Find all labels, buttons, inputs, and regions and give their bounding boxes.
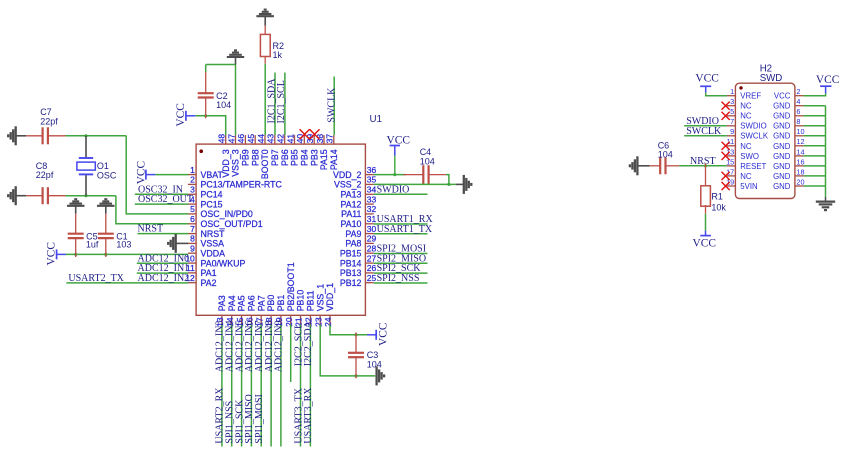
svg-text:20: 20 [796, 177, 804, 186]
ground at VSS_1 [375, 366, 377, 385]
svg-text:PA1: PA1 [201, 268, 217, 278]
svg-text:PA8: PA8 [345, 239, 361, 249]
wire pin30 USART1_TX [374, 233, 428, 235]
svg-text:GND: GND [773, 172, 791, 181]
svg-text:ADC12_IN9: ADC12_IN9 [274, 321, 285, 373]
svg-text:SWDIO: SWDIO [740, 122, 766, 131]
svg-text:PB2/BOOT1: PB2/BOOT1 [286, 262, 296, 311]
wire pin10 ADC12_IN0 [137, 262, 188, 264]
ground above C1 [97, 205, 115, 207]
svg-text:22pf: 22pf [40, 117, 58, 127]
ground at VSS_3 [227, 56, 244, 58]
wire pin28 SPI2_MOSI [374, 253, 428, 255]
power VCC at H2 pin1 [700, 85, 711, 87]
junction R1 on NRST [704, 164, 707, 167]
svg-text:USART1_TX: USART1_TX [377, 224, 433, 235]
svg-text:6: 6 [796, 107, 800, 116]
power VCC at VDDA rail [56, 249, 58, 259]
junction C5 [74, 253, 77, 256]
svg-text:9: 9 [190, 243, 195, 253]
ground at pin8 VSSA [176, 242, 189, 244]
power VCC at pin1 VBAT [145, 170, 147, 180]
svg-text:3: 3 [190, 185, 195, 195]
wire VCC rail to pin48 VDD_3 [195, 116, 225, 135]
wire pin22 I2C2_SDA / USART3_RX [309, 325, 311, 447]
wire VDDA rail to pin9 [66, 253, 188, 255]
capacitor C7 [26, 135, 42, 137]
connector H2 SWD header body [735, 83, 795, 198]
svg-text:5: 5 [730, 107, 734, 116]
svg-text:1uf: 1uf [86, 239, 99, 249]
svg-text:SWDIO: SWDIO [377, 184, 410, 195]
svg-text:1: 1 [730, 87, 734, 96]
crystal O1 OSC [85, 136, 87, 157]
svg-text:PA4: PA4 [227, 295, 237, 311]
svg-text:30: 30 [367, 224, 377, 234]
svg-text:SWO: SWO [740, 152, 759, 161]
svg-text:PA14: PA14 [329, 149, 339, 170]
svg-text:VCC: VCC [378, 323, 390, 346]
svg-text:PB11: PB11 [306, 290, 316, 311]
svg-text:VDD_1: VDD_1 [325, 283, 335, 311]
wire SWCLK to H2 pin9 [684, 135, 727, 137]
wire SWDIO to H2 pin7 [684, 125, 727, 127]
wire GND bus vertical [825, 106, 827, 197]
U1 right pin stubs 36-25 [365, 174, 373, 176]
svg-text:VCC: VCC [175, 103, 187, 126]
svg-text:VSS_1: VSS_1 [315, 284, 325, 311]
wire pin17 ADC12_IN7 [260, 325, 262, 447]
svg-text:32: 32 [367, 204, 377, 214]
wire pin34 SWDIO [374, 193, 428, 195]
wire pin15 ADC12_IN5 [241, 325, 243, 447]
junction C3 top [354, 333, 357, 336]
junction crystal bottom [84, 194, 87, 197]
svg-text:NC: NC [740, 172, 752, 181]
svg-text:PB1: PB1 [276, 295, 286, 312]
capacitor C1 [105, 214, 107, 234]
capacitor C3 [355, 332, 357, 352]
junction C3 bottom [354, 374, 357, 377]
svg-text:103: 103 [116, 239, 131, 249]
ground above C5 [67, 205, 85, 207]
svg-text:45: 45 [246, 134, 256, 144]
wire pin36 VDD_2 [374, 174, 406, 176]
svg-text:SWCLK: SWCLK [327, 87, 338, 123]
H2 left pin stubs [727, 95, 736, 97]
svg-text:OSC: OSC [97, 170, 117, 180]
svg-text:RESET: RESET [740, 162, 766, 171]
svg-text:104: 104 [658, 150, 673, 160]
capacitor C2 [205, 98, 207, 119]
svg-text:NRST: NRST [201, 229, 226, 239]
svg-text:5VIN: 5VIN [740, 182, 757, 191]
power VCC at H2 pin2 [820, 85, 831, 87]
wire pin14 ADC12_IN4 [231, 325, 233, 447]
svg-text:U1: U1 [370, 114, 383, 125]
svg-text:10: 10 [796, 127, 804, 136]
svg-text:PA11: PA11 [341, 209, 361, 219]
svg-text:OSC_OUT/PD1: OSC_OUT/PD1 [201, 219, 263, 229]
svg-text:VDD_2: VDD_2 [333, 170, 361, 180]
H2 right pin stubs [795, 95, 804, 97]
capacitor C8 [26, 195, 42, 197]
svg-text:VSS_2: VSS_2 [334, 180, 361, 190]
svg-text:GND: GND [773, 142, 791, 151]
svg-text:PA12: PA12 [341, 199, 362, 209]
power VCC at pin36 VDD_2 [390, 145, 400, 147]
wire pin18 ADC12_IN8 [270, 325, 272, 447]
svg-text:PB12: PB12 [340, 278, 362, 288]
svg-text:12: 12 [796, 137, 804, 146]
svg-text:104: 104 [216, 100, 231, 110]
svg-text:PC13/TAMPER-RTC: PC13/TAMPER-RTC [201, 180, 283, 190]
svg-text:34: 34 [367, 185, 377, 195]
svg-text:BOOT0: BOOT0 [260, 149, 270, 179]
svg-text:PA7: PA7 [256, 295, 266, 311]
junction C2 [204, 114, 207, 117]
svg-text:18: 18 [796, 167, 804, 176]
svg-text:PA15: PA15 [319, 149, 329, 170]
capacitor C6 [650, 165, 661, 167]
svg-text:GND: GND [773, 122, 791, 131]
svg-text:VCC: VCC [387, 135, 410, 147]
wire pin35 VSS_2 to ground [374, 183, 456, 185]
svg-text:VCC: VCC [816, 74, 839, 86]
svg-text:36: 36 [367, 165, 377, 175]
svg-text:5: 5 [190, 204, 195, 214]
svg-text:7: 7 [730, 117, 734, 126]
wire pin3 with net label [135, 193, 188, 195]
svg-text:PB10: PB10 [296, 290, 306, 312]
svg-text:VSSA: VSSA [201, 239, 225, 249]
svg-text:15: 15 [726, 157, 734, 166]
wire R2 to pin44 BOOT0 [264, 64, 266, 135]
svg-text:26: 26 [367, 263, 377, 273]
svg-text:OSC32_OUT: OSC32_OUT [138, 194, 193, 205]
svg-text:25: 25 [367, 273, 377, 283]
svg-text:1k: 1k [273, 50, 283, 60]
svg-text:R1: R1 [711, 191, 723, 201]
svg-text:PB0: PB0 [266, 295, 276, 312]
svg-text:4: 4 [796, 97, 800, 106]
wire VCC to H2 pin1 VREF [706, 93, 727, 96]
svg-text:PB3: PB3 [309, 149, 319, 166]
svg-text:VCC: VCC [136, 161, 148, 184]
wire pin24 VDD_1 to VCC [330, 325, 368, 335]
svg-text:22pf: 22pf [36, 170, 54, 180]
svg-text:PC14: PC14 [201, 190, 223, 200]
svg-text:PB4: PB4 [299, 149, 309, 166]
svg-text:VSS_3: VSS_3 [231, 149, 241, 176]
IC U1 microcontroller body [196, 144, 365, 315]
svg-text:7: 7 [190, 224, 195, 234]
no-connect X marks on H2 pins 3,5,11,13,17,19 [722, 102, 730, 110]
wire OSC_IN top: C7 to crystal to pin5 [66, 135, 127, 137]
svg-text:2: 2 [796, 87, 800, 96]
svg-text:VCC: VCC [774, 92, 791, 101]
svg-text:44: 44 [256, 134, 266, 144]
svg-text:OSC_IN/PD0: OSC_IN/PD0 [201, 209, 253, 219]
svg-text:23: 23 [313, 317, 323, 327]
ground at H2 GND bus [825, 197, 827, 202]
wire VCC to pin1 [155, 174, 188, 176]
svg-text:46: 46 [236, 134, 246, 144]
svg-text:41: 41 [285, 134, 295, 144]
ground at VSS_2 [456, 183, 464, 185]
ground at C8 [15, 186, 17, 205]
svg-text:NC: NC [740, 112, 752, 121]
wire VCC to H2 pin2 [803, 93, 825, 95]
svg-text:ADC12_IN2: ADC12_IN2 [138, 273, 190, 284]
svg-text:PB9: PB9 [241, 149, 251, 166]
ground at C6 [636, 156, 638, 175]
svg-text:16: 16 [796, 157, 804, 166]
power VCC at C2 [185, 111, 187, 121]
svg-text:47: 47 [226, 134, 236, 144]
svg-text:PB14: PB14 [340, 258, 362, 268]
svg-text:PA5: PA5 [237, 295, 247, 311]
svg-text:SWCLK: SWCLK [686, 126, 722, 137]
wire pin27 SPI2_MISO [374, 262, 428, 264]
ground above R2 [256, 15, 274, 17]
U1 pin-1 marker dot [199, 149, 203, 153]
junction C4/VSS_2 [447, 183, 450, 186]
wire pin37 SWCLK [333, 77, 335, 136]
svg-text:NRST: NRST [138, 224, 164, 235]
resistor R1 [705, 163, 707, 185]
capacitor C5 [75, 214, 77, 234]
svg-text:SWD: SWD [760, 73, 783, 84]
wire pin11 ADC12_IN1 [137, 272, 188, 274]
wire pin23 VSS_1 to ground [320, 325, 375, 376]
svg-text:48: 48 [217, 134, 227, 144]
svg-text:104: 104 [367, 360, 382, 370]
wire C4 down to VSS_2 net [446, 175, 449, 185]
svg-text:PB8: PB8 [250, 149, 260, 166]
svg-text:35: 35 [367, 175, 377, 185]
svg-text:14: 14 [796, 147, 804, 156]
svg-text:VDDA: VDDA [201, 249, 226, 259]
svg-text:PA0/WKUP: PA0/WKUP [201, 258, 246, 268]
svg-text:VDD_3: VDD_3 [221, 149, 231, 177]
svg-text:PA10: PA10 [341, 219, 362, 229]
junction C1 [104, 253, 107, 256]
resistor R2 [264, 26, 266, 35]
H2 pin-1 marker dot [739, 86, 742, 89]
svg-text:11: 11 [727, 137, 735, 146]
svg-text:9: 9 [730, 127, 734, 136]
svg-text:33: 33 [367, 194, 377, 204]
junction crystal top [84, 134, 87, 137]
svg-text:29: 29 [367, 234, 377, 244]
svg-text:PB7: PB7 [270, 149, 280, 166]
svg-text:NC: NC [740, 142, 752, 151]
junction VCC pin36 [393, 173, 396, 176]
svg-text:I2C2_SDA: I2C2_SDA [303, 320, 314, 366]
svg-text:PB13: PB13 [340, 268, 362, 278]
power VCC below R1 [700, 235, 711, 237]
svg-text:PB6: PB6 [280, 149, 290, 166]
svg-text:VCC: VCC [693, 237, 716, 249]
svg-text:31: 31 [367, 214, 377, 224]
svg-text:PA9: PA9 [345, 229, 361, 239]
capacitor C4 [403, 174, 423, 176]
wire pin12 USART2_TX / ADC12_IN2 [66, 282, 188, 284]
wire pin7 NRST [138, 233, 189, 235]
svg-text:GND: GND [773, 112, 791, 121]
svg-text:I2C1_SCL: I2C1_SCL [276, 80, 287, 123]
power VCC at VDD_1 [375, 330, 377, 340]
svg-text:SWCLK: SWCLK [740, 132, 769, 141]
svg-text:PA3: PA3 [217, 295, 227, 311]
wire pin19 ADC12_IN9 [280, 325, 282, 447]
svg-text:27: 27 [367, 253, 377, 263]
wire pin13 ADC12_IN3 [221, 325, 223, 447]
svg-text:PA2: PA2 [201, 278, 217, 288]
svg-text:37: 37 [325, 134, 335, 144]
wire NRST to H2 pin15 RESET [679, 165, 727, 167]
svg-text:24: 24 [323, 317, 333, 327]
wire pin16 ADC12_IN6 [250, 325, 252, 447]
svg-text:NRST: NRST [690, 156, 716, 167]
svg-text:GND: GND [773, 162, 791, 171]
svg-text:PC15: PC15 [201, 199, 223, 209]
svg-text:43: 43 [266, 134, 276, 144]
svg-text:1: 1 [190, 165, 195, 175]
svg-text:42: 42 [276, 134, 286, 144]
svg-text:USART2_TX: USART2_TX [68, 273, 124, 284]
wire pin25 SPI2_NSS [374, 282, 428, 284]
svg-text:8: 8 [190, 234, 195, 244]
svg-text:C3: C3 [367, 350, 379, 360]
svg-text:USART3_RX: USART3_RX [303, 387, 314, 444]
no-connect X pin39 PB3 [310, 129, 320, 139]
svg-text:PB5: PB5 [290, 149, 300, 166]
svg-text:SPI1_MOSI: SPI1_MOSI [254, 394, 265, 443]
wire C2 top to pin47 VSS_3 [205, 65, 207, 73]
ground at C7 [15, 126, 17, 145]
svg-text:2: 2 [190, 175, 195, 185]
svg-text:10k: 10k [711, 202, 726, 212]
svg-text:GND: GND [773, 152, 791, 161]
svg-text:GND: GND [773, 132, 791, 141]
wire pin20 PB2/BOOT1 stub [290, 325, 292, 382]
wire pin4 with net label [135, 203, 188, 205]
no-connect X pin40 PB4 [300, 129, 310, 139]
svg-text:VREF: VREF [740, 92, 761, 101]
svg-text:3: 3 [730, 97, 734, 106]
wire pin42 I2C1_SCL [284, 73, 286, 136]
svg-text:SPI2_NSS: SPI2_NSS [377, 273, 420, 284]
U1 bottom pin stubs 13-24 [221, 315, 223, 324]
wire pin21 I2C2_SCL / USART3_TX [300, 325, 302, 447]
wire pin43 I2C1_SDA [274, 73, 276, 136]
svg-text:GND: GND [773, 102, 791, 111]
wire R1 to VCC [705, 214, 707, 231]
svg-text:104: 104 [420, 157, 435, 167]
svg-text:28: 28 [367, 243, 377, 253]
wire pin31 USART1_RX [374, 223, 428, 225]
svg-text:NC: NC [740, 102, 752, 111]
svg-text:PA6: PA6 [247, 295, 257, 311]
wires H2 GND pins 4-20 to bus [803, 105, 825, 107]
svg-text:PA13: PA13 [341, 190, 362, 200]
wire OSC_OUT bottom: C8 to crystal to pin6 [66, 195, 116, 197]
svg-text:VCC: VCC [695, 73, 718, 85]
svg-text:8: 8 [796, 117, 800, 126]
U1 top pin stubs 48-37 [225, 135, 227, 144]
wire pin26 SPI2_SCK [374, 272, 428, 274]
U1 left pin stubs 1-12 [188, 174, 196, 176]
svg-text:PB15: PB15 [340, 249, 362, 259]
svg-text:6: 6 [190, 214, 195, 224]
svg-text:VCC: VCC [45, 242, 57, 265]
svg-text:GND: GND [773, 182, 791, 191]
